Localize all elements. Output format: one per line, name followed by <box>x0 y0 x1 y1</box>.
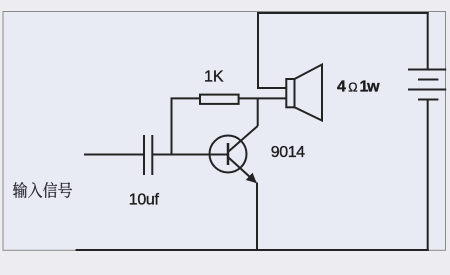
capacitor C1 <box>144 135 152 175</box>
svg-text:4Ω1w: 4Ω1w <box>337 79 380 96</box>
svg-text:1K: 1K <box>204 68 224 85</box>
wire capacitor to transistor base <box>152 154 227 156</box>
wire top rail to speaker top terminal <box>258 12 286 88</box>
wire collector drop <box>257 98 259 126</box>
wire bottom rail <box>76 249 429 251</box>
battery B1 <box>408 70 446 100</box>
resistor R1 1K <box>200 95 239 104</box>
wire top rail <box>257 12 429 14</box>
wire battery positive lead <box>427 12 429 70</box>
wire collector node to speaker bottom terminal <box>239 97 287 99</box>
wire input stub to capacitor <box>84 154 144 156</box>
wire emitter to bottom rail <box>256 183 258 251</box>
transistor Q1 collector lead <box>229 126 258 152</box>
wire battery negative lead <box>427 100 429 252</box>
wire resistor left lead <box>172 98 201 154</box>
label input signal (Chinese) <box>13 182 72 198</box>
svg-text:9014: 9014 <box>271 144 305 161</box>
transistor Q1 9014 <box>210 136 257 183</box>
speaker LS1 <box>286 65 322 121</box>
svg-text:10uf: 10uf <box>129 192 160 209</box>
